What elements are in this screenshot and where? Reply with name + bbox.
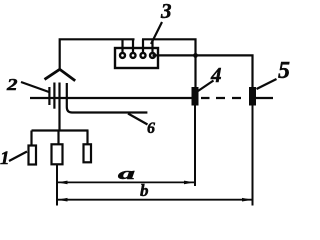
brush stroke 4 of item 2 bending into wire 6 bbox=[67, 83, 148, 113]
brush stroke 3 of item 2 (continues down to item 1 bar) bbox=[58, 83, 60, 131]
terminal circle 2 of U3 bbox=[131, 53, 136, 58]
pin 3 of U3 bbox=[142, 39, 144, 52]
brush stroke 2 of item 2 bbox=[53, 83, 55, 109]
leader line to label 5 bbox=[257, 79, 277, 89]
leader line to label 1 bbox=[9, 152, 27, 162]
dimension line b bbox=[57, 199, 253, 201]
leader line to label 3 bbox=[151, 22, 162, 44]
right block of item 1 bbox=[84, 144, 92, 162]
collector head item 2 (inverted V wings) bbox=[45, 69, 76, 81]
node junction at wire crossing bbox=[193, 53, 198, 58]
pin 2 of U3 bbox=[132, 39, 134, 52]
svg-text:b: b bbox=[140, 181, 149, 200]
dimension line a bbox=[57, 181, 195, 183]
svg-text:4: 4 bbox=[210, 63, 222, 87]
main rail line dashed segment between joints 4 and 5 bbox=[201, 97, 241, 99]
insulated joint 4 (filled square) bbox=[192, 87, 199, 106]
svg-text:2: 2 bbox=[6, 75, 18, 94]
leader line to label 6 bbox=[128, 114, 148, 125]
svg-text:3: 3 bbox=[160, 0, 172, 23]
brush stroke 1 of item 2 bbox=[48, 87, 50, 105]
extension line left (below center block) bbox=[56, 164, 58, 205]
main rail line left solid segment bbox=[30, 97, 192, 99]
pin 4 of U3 bbox=[151, 39, 153, 52]
box U3 (transmitter unit) bbox=[115, 48, 158, 68]
wire from box terminal 4 to joint 5 drop bbox=[153, 55, 253, 87]
drop wire to left block of item 1 bbox=[30, 131, 32, 146]
wire bus from box terminals 3-4 to joint 4 drop bbox=[142, 39, 196, 87]
arrowhead a left bbox=[57, 181, 67, 185]
wire top feed from collector to box terminals 1-2 bbox=[60, 39, 135, 70]
left block of item 1 bbox=[29, 146, 37, 165]
svg-text:6: 6 bbox=[147, 120, 155, 137]
svg-text:a: a bbox=[118, 164, 136, 183]
drop wire to right block of item 1 bbox=[86, 131, 88, 145]
terminal circle 1 of U3 bbox=[120, 53, 125, 58]
leader line to label 2 bbox=[21, 82, 49, 92]
terminal circle 3 of U3 bbox=[141, 53, 146, 58]
extension line under joint 4 bbox=[194, 106, 196, 187]
svg-text:5: 5 bbox=[278, 58, 290, 84]
svg-text:1: 1 bbox=[0, 148, 10, 169]
leader line to label 4 bbox=[198, 81, 214, 92]
arrowhead a right bbox=[184, 181, 194, 185]
terminal circle 4 of U3 bbox=[150, 53, 155, 58]
extension line under joint 5 bbox=[252, 106, 254, 206]
main rail line right solid segment bbox=[256, 97, 273, 99]
item 1 connecting bar bbox=[32, 129, 89, 131]
drop wire to center block of item 1 bbox=[57, 131, 59, 145]
center block of item 1 bbox=[52, 144, 63, 164]
arrowhead b right bbox=[242, 198, 252, 202]
arrowhead b left bbox=[57, 198, 67, 202]
insulated joint 5 (filled square) bbox=[249, 87, 256, 106]
pin 1 of U3 bbox=[121, 39, 123, 52]
